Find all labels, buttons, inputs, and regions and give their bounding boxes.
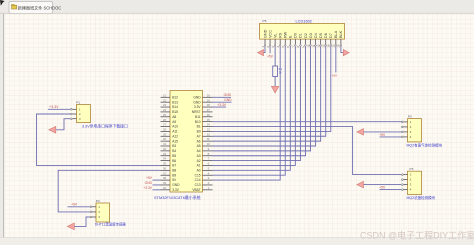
svg-text:B14: B14 <box>172 105 178 109</box>
svg-text:3.3V: 3.3V <box>172 188 180 192</box>
svg-text:R1: R1 <box>279 67 283 71</box>
connector P3 MQ2 sensor module <box>401 167 421 194</box>
svg-text:C14: C14 <box>195 178 201 182</box>
connector P2 MQ2 sensor module <box>401 115 421 142</box>
connector P1 serial download port <box>70 100 90 122</box>
svg-text:A11: A11 <box>172 130 178 134</box>
svg-text:B4: B4 <box>172 149 176 153</box>
svg-text:B7: B7 <box>172 164 176 168</box>
svg-text:+5V: +5V <box>332 73 337 77</box>
MCU U1 STM32F103C8T6 body <box>161 91 213 193</box>
wire LCD pin2 stub <box>269 47 271 54</box>
connector P4 DHT11 <box>90 199 110 222</box>
wire LCD pin11 to U1 A5 <box>213 47 316 147</box>
svg-text:NRST: NRST <box>192 110 201 114</box>
svg-text:A5: A5 <box>197 144 201 148</box>
tab folder icon <box>12 5 17 9</box>
svg-text:+5V: +5V <box>71 203 78 207</box>
wire resistor to ground <box>274 77 276 87</box>
svg-text:D3: D3 <box>309 33 313 38</box>
wire LCD pin3 to resistor <box>274 47 276 67</box>
svg-text:GND: GND <box>193 100 201 104</box>
svg-text:D6: D6 <box>324 33 328 38</box>
svg-text:D2: D2 <box>304 33 308 38</box>
svg-text:A10: A10 <box>172 125 178 129</box>
svg-text:BLA: BLA <box>334 30 338 38</box>
ground arrow below resistor <box>271 86 278 93</box>
svg-text:A7: A7 <box>197 134 201 138</box>
wire LCD pin10 to U1 A4 <box>213 47 311 151</box>
wire LCD pin15 stub <box>335 47 337 73</box>
bottom strip <box>0 238 474 245</box>
power label +5V pin38 <box>153 179 161 181</box>
wire P2 pin3 to ground arrow <box>364 131 402 133</box>
svg-text:GND: GND <box>224 98 232 102</box>
svg-text:MQ2浓度检测模块: MQ2浓度检测模块 <box>407 195 436 200</box>
svg-text:P3: P3 <box>410 167 414 171</box>
wire LCD pin7 to U1 A1 <box>213 47 296 166</box>
svg-text:VBAT: VBAT <box>192 188 200 192</box>
top-left arrow <box>0 0 5 6</box>
svg-text:3.3V: 3.3V <box>194 105 202 109</box>
svg-text:P2: P2 <box>408 115 412 119</box>
wire P2 pin1 to U1 B10 <box>213 121 402 123</box>
wire LCD pin16 to ground arrow <box>341 47 344 53</box>
wire P4 pin3 to ground arrow <box>74 217 89 226</box>
svg-text:+5V: +5V <box>379 186 386 190</box>
connector P5 LCD1602 <box>260 19 345 47</box>
svg-text:DHT11温湿度传感器: DHT11温湿度传感器 <box>95 221 126 226</box>
svg-text:VL: VL <box>273 33 277 38</box>
svg-text:+3.3V: +3.3V <box>217 103 227 107</box>
wire P1 pin3 to ground arrow <box>56 119 70 130</box>
tab bar <box>0 0 474 14</box>
wire LCD pin4 to U1 C14 <box>213 47 281 181</box>
svg-text:D4: D4 <box>314 33 318 38</box>
svg-text:B6: B6 <box>172 159 176 163</box>
svg-text:+5V: +5V <box>267 55 274 59</box>
svg-text:A15: A15 <box>172 139 178 143</box>
wire P4 pin1 <box>68 206 90 208</box>
svg-text:STM32F103C8T6最小系统: STM32F103C8T6最小系统 <box>154 195 201 200</box>
wire LCD pin5 to U1 C15 <box>213 47 286 176</box>
svg-text:C13: C13 <box>195 183 201 187</box>
svg-text:B8: B8 <box>172 169 176 173</box>
svg-text:RW: RW <box>284 31 288 38</box>
ground arrow P3 <box>357 181 364 188</box>
wire P3 pin3 to ground arrow <box>364 184 402 186</box>
ground arrow P2 <box>357 129 364 136</box>
wire LCD pin8 to U1 A2 <box>213 47 301 161</box>
wire P1 pin2 to U1 B7 <box>37 114 161 165</box>
wire P2 pin4 <box>380 136 402 138</box>
svg-text:B10: B10 <box>195 120 201 124</box>
ground arrow LCD right <box>343 50 349 56</box>
svg-text:A12: A12 <box>172 134 178 138</box>
svg-text:B15: B15 <box>172 110 178 114</box>
svg-text:B1: B1 <box>197 125 201 129</box>
svg-text:A4: A4 <box>197 149 201 153</box>
svg-text:A9: A9 <box>172 120 176 124</box>
wire P3 pin4 <box>380 189 402 191</box>
svg-text:P4: P4 <box>96 199 100 203</box>
wire LCD pin9 to U1 A3 <box>213 47 306 156</box>
svg-text:B9: B9 <box>172 173 176 177</box>
svg-text:C15: C15 <box>195 173 201 177</box>
svg-text:B11: B11 <box>195 115 201 119</box>
svg-text:+3.3V: +3.3V <box>49 105 59 109</box>
wire LCD pin1 to ground arrow <box>263 47 265 53</box>
svg-text:BLK: BLK <box>339 30 343 38</box>
left panel edge <box>0 14 5 238</box>
svg-text:GND: GND <box>263 29 267 38</box>
ground arrow LCD left <box>258 50 264 56</box>
svg-text:MQ2有害气体检测模块: MQ2有害气体检测模块 <box>407 142 443 147</box>
svg-text:D0: D0 <box>294 33 298 38</box>
svg-text:VCC: VCC <box>268 30 272 38</box>
power label GND pin39 <box>153 184 161 186</box>
wire P4 pin2 to U1 B8 <box>58 170 160 212</box>
power label GND pin19 <box>213 101 232 103</box>
wire P1 pin1 <box>48 108 70 110</box>
power label GND pin20 <box>213 96 232 98</box>
svg-text:D5: D5 <box>319 33 323 38</box>
wire LCD pin12 to U1 A6 <box>213 47 321 142</box>
svg-text:B0: B0 <box>197 130 201 134</box>
svg-text:A8: A8 <box>172 115 176 119</box>
wire P3 pin1 to U1 B1 <box>213 127 402 175</box>
wire LCD pin14 to U1 B0 <box>213 47 331 132</box>
svg-text:GND: GND <box>172 183 180 187</box>
wire LCD pin6 to U1 A0 <box>213 47 291 171</box>
power label +3.3V pin18 <box>213 106 227 108</box>
svg-text:P1: P1 <box>76 100 80 104</box>
power label +3.3V pin40 <box>153 189 161 191</box>
svg-text:A3: A3 <box>197 154 201 158</box>
svg-text:A6: A6 <box>197 139 201 143</box>
svg-text:+5V: +5V <box>379 133 386 137</box>
svg-text:CSDN @电子工程DIY工作室: CSDN @电子工程DIY工作室 <box>360 230 474 241</box>
svg-text:D1: D1 <box>299 33 303 38</box>
document tab <box>9 1 53 13</box>
svg-text:B5: B5 <box>172 154 176 158</box>
svg-text:新建图纸文件 SCHDOC: 新建图纸文件 SCHDOC <box>18 4 61 10</box>
svg-text:B3: B3 <box>172 144 176 148</box>
svg-text:LCD1602: LCD1602 <box>296 18 312 23</box>
ground arrow P4 <box>67 223 74 230</box>
svg-text:A1: A1 <box>197 164 201 168</box>
ground arrow P1 <box>49 126 56 133</box>
svg-text:GND: GND <box>224 93 232 97</box>
svg-text:GND: GND <box>193 95 201 99</box>
svg-text:D7: D7 <box>329 33 333 38</box>
svg-text:B12: B12 <box>172 95 178 99</box>
resistor R1 <box>273 66 278 77</box>
svg-text:P5: P5 <box>263 19 267 23</box>
svg-text:B13: B13 <box>172 100 178 104</box>
svg-text:RS: RS <box>278 32 282 38</box>
svg-text:A2: A2 <box>197 159 201 163</box>
svg-text:A0: A0 <box>197 169 201 173</box>
svg-text:+3.3V: +3.3V <box>143 186 153 190</box>
svg-text:3.3V供电串口程序下载接口: 3.3V供电串口程序下载接口 <box>82 124 128 129</box>
wire LCD pin13 to U1 A7 <box>213 47 326 137</box>
svg-text:GND: GND <box>145 181 153 185</box>
svg-text:+5V: +5V <box>146 176 153 180</box>
